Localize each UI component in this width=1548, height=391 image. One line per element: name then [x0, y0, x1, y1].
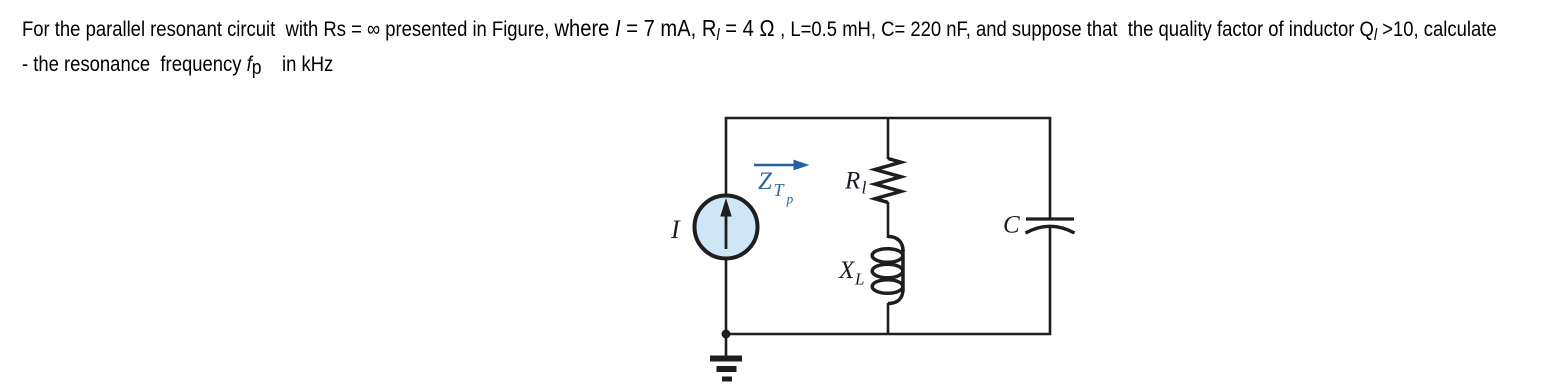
- junction node: [722, 330, 731, 339]
- inductor XL: [872, 237, 903, 304]
- svg-text:T: T: [774, 180, 786, 200]
- svg-text:R: R: [844, 168, 860, 195]
- wire middle bottom: [887, 303, 890, 334]
- svg-text:C: C: [1003, 212, 1020, 239]
- svg-text:X: X: [838, 257, 856, 284]
- svg-text:l: l: [862, 178, 867, 198]
- capacitor C: [1026, 219, 1075, 233]
- svg-text:L: L: [854, 270, 864, 289]
- impedance arrow ZTp: [754, 160, 810, 171]
- svg-text:I: I: [670, 215, 681, 244]
- ground: [710, 334, 742, 382]
- wire middle mid: [887, 202, 890, 238]
- wire top: left branch up, across top, right branch down to capacitor: [726, 118, 1050, 219]
- wire middle top: [887, 118, 890, 159]
- current source I: [695, 196, 758, 259]
- wire bottom: capacitor down, across bottom, up to source: [726, 227, 1050, 335]
- svg-text:Z: Z: [758, 168, 773, 195]
- current source arrow: [720, 198, 731, 249]
- resistor Rl: [875, 159, 901, 203]
- label ZTp: [758, 168, 794, 207]
- svg-text:p: p: [786, 192, 794, 207]
